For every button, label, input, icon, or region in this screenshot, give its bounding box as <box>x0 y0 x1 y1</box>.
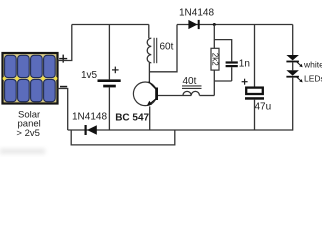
yellow joint dots <box>3 77 58 80</box>
svg-text:2k2: 2k2 <box>211 53 220 66</box>
wire: 2k2 branch down <box>213 25 215 49</box>
emission arrow <box>297 77 301 81</box>
wire: base lead <box>158 95 191 97</box>
emitter lead with arrow <box>151 99 156 103</box>
wire: panel + to top rail riser <box>58 25 72 61</box>
solar cell 8 <box>44 79 56 101</box>
solar cell 5 <box>5 79 17 101</box>
solar cell 2 <box>18 55 30 77</box>
wire: battery minus down <box>108 87 110 130</box>
panel plus sign <box>59 55 67 63</box>
svg-text:40t: 40t <box>183 76 197 87</box>
svg-text:BC 547: BC 547 <box>115 112 149 123</box>
top plate <box>246 88 263 94</box>
wire: 1n bottom stub <box>231 67 233 81</box>
junction node <box>213 23 216 26</box>
solar cell 7 <box>31 79 43 101</box>
wire: 40t right lead <box>200 95 215 97</box>
diode D2 1N4148 (charging, cathode left) <box>72 112 107 135</box>
wire: resistor bottom stub <box>213 70 215 95</box>
wire: between LEDs <box>292 62 294 70</box>
wire: feedback to output diode <box>149 25 177 72</box>
wire: LED bottom down <box>292 78 294 131</box>
47u plus sign <box>242 79 248 85</box>
solar cell 3 <box>31 55 43 77</box>
battery B1 1v5 <box>81 67 121 88</box>
diode D1 1N4148 (output) <box>179 8 214 30</box>
solar cell 4 <box>44 55 56 77</box>
transformer core <box>154 38 157 63</box>
wire: 1n top branch <box>214 40 231 62</box>
panel minus sign <box>60 86 67 88</box>
wire: emitter down <box>149 106 151 130</box>
wire: coil bottom / collector node <box>148 63 150 82</box>
wire: lower return rail <box>71 130 175 145</box>
bottom plate <box>245 97 264 100</box>
collector lead <box>149 82 156 89</box>
svg-text:60t: 60t <box>160 42 174 53</box>
wire: panel minus down <box>58 89 68 131</box>
wire: base junction link <box>214 80 231 82</box>
base bar <box>155 88 158 101</box>
svg-text:1N4148: 1N4148 <box>179 8 214 19</box>
svg-text:1n: 1n <box>239 58 250 69</box>
svg-text:white: white <box>303 59 322 69</box>
LED D4 <box>286 70 302 82</box>
solar cell 1 <box>5 55 17 77</box>
capacitor C1 1n <box>226 58 250 69</box>
transistor Q1 BC547 <box>115 82 158 124</box>
wire: 47u bottom lead <box>254 100 256 130</box>
capacitor C2 47u electrolytic <box>242 25 272 131</box>
bottom-left gray smudge artifact <box>0 149 45 155</box>
wire: bottom battery-minus rail <box>68 129 293 131</box>
wire: output diode rail <box>177 24 293 26</box>
emission arrow <box>297 62 301 66</box>
wire: battery drop from rail <box>108 25 110 80</box>
wire: rail down to 60t coil <box>148 25 150 39</box>
svg-text:1N4148: 1N4148 <box>72 112 107 123</box>
transformer T1 primary 60t <box>147 38 151 63</box>
svg-text:47u: 47u <box>255 101 272 112</box>
wire: top rail <box>72 24 149 26</box>
solar panel body <box>3 53 58 104</box>
svg-text:> 2v5: > 2v5 <box>16 128 40 139</box>
resistor R1 2k2 <box>211 48 220 70</box>
transformer T1 feedback 40t <box>183 91 200 95</box>
svg-text:1v5: 1v5 <box>81 70 98 81</box>
wire: LED string drop <box>292 25 294 56</box>
LED D3 <box>286 55 302 67</box>
svg-text:LEDs: LEDs <box>304 74 322 84</box>
wire: 47u top lead <box>254 25 256 88</box>
solar cell 6 <box>18 79 30 101</box>
battery plus sign <box>112 67 119 74</box>
feedback core <box>182 86 202 89</box>
